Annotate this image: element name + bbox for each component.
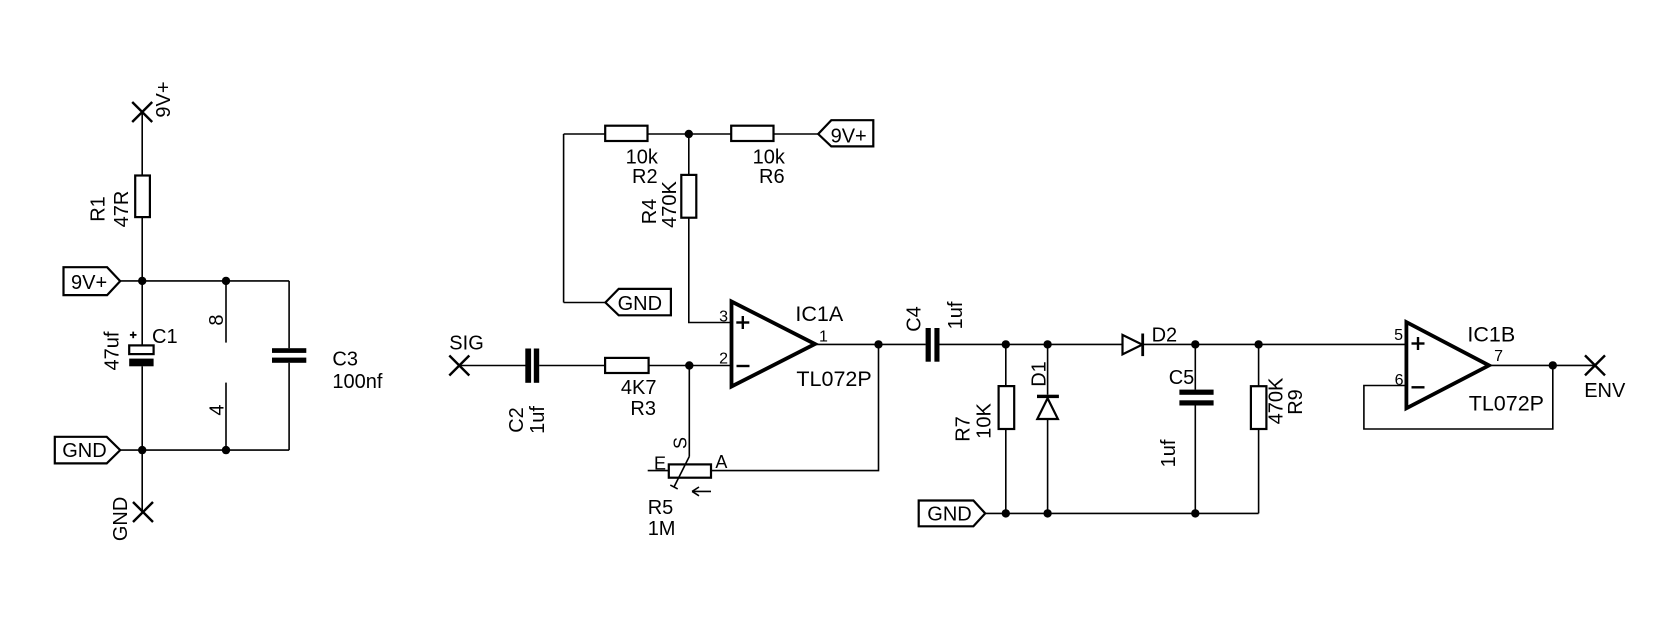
svg-text:9V+: 9V+ <box>153 81 175 117</box>
svg-text:9V+: 9V+ <box>831 126 867 148</box>
svg-text:R2: R2 <box>632 166 658 188</box>
svg-text:R6: R6 <box>759 166 785 188</box>
svg-text:R1: R1 <box>87 196 109 222</box>
svg-text:IC1A: IC1A <box>795 302 843 326</box>
svg-text:D1: D1 <box>1029 361 1051 387</box>
svg-text:C3: C3 <box>332 349 358 371</box>
svg-text:7: 7 <box>1494 348 1503 365</box>
svg-text:E: E <box>654 454 666 474</box>
svg-text:47uf: 47uf <box>101 331 123 370</box>
svg-text:IC1B: IC1B <box>1467 323 1515 347</box>
svg-text:5: 5 <box>1394 327 1403 344</box>
svg-text:C2: C2 <box>506 407 528 433</box>
svg-text:A: A <box>715 452 727 472</box>
svg-text:1M: 1M <box>648 518 676 540</box>
svg-text:R9: R9 <box>1285 389 1307 415</box>
svg-text:SIG: SIG <box>449 332 483 354</box>
svg-text:R4: R4 <box>639 199 661 225</box>
svg-text:9V+: 9V+ <box>71 272 107 294</box>
svg-text:8: 8 <box>206 314 228 325</box>
svg-text:1uf: 1uf <box>945 301 967 329</box>
svg-text:R3: R3 <box>630 398 656 420</box>
svg-text:2: 2 <box>719 351 728 368</box>
svg-text:3: 3 <box>719 308 728 325</box>
svg-text:C5: C5 <box>1169 367 1195 389</box>
svg-text:D2: D2 <box>1152 325 1178 347</box>
svg-text:GND: GND <box>110 497 132 541</box>
svg-text:10K: 10K <box>973 403 995 439</box>
svg-text:ENV: ENV <box>1584 380 1626 402</box>
svg-text:470K: 470K <box>659 180 681 227</box>
svg-text:47R: 47R <box>111 191 133 228</box>
svg-text:1: 1 <box>819 329 828 346</box>
svg-text:TL072P: TL072P <box>1469 392 1544 416</box>
svg-text:1uf: 1uf <box>1158 439 1180 467</box>
svg-text:GND: GND <box>618 293 662 315</box>
svg-text:TL072P: TL072P <box>796 367 871 391</box>
svg-text:6: 6 <box>1395 372 1404 389</box>
svg-text:R7: R7 <box>953 416 975 442</box>
svg-text:S: S <box>671 437 691 449</box>
svg-text:GND: GND <box>62 440 106 462</box>
svg-text:C1: C1 <box>152 326 178 348</box>
svg-text:4K7: 4K7 <box>621 377 657 399</box>
svg-text:GND: GND <box>927 504 971 526</box>
svg-text:1uf: 1uf <box>527 406 549 434</box>
svg-text:100nf: 100nf <box>332 371 382 393</box>
svg-text:C4: C4 <box>903 306 925 332</box>
svg-text:R5: R5 <box>648 497 674 519</box>
svg-text:4: 4 <box>207 404 229 415</box>
